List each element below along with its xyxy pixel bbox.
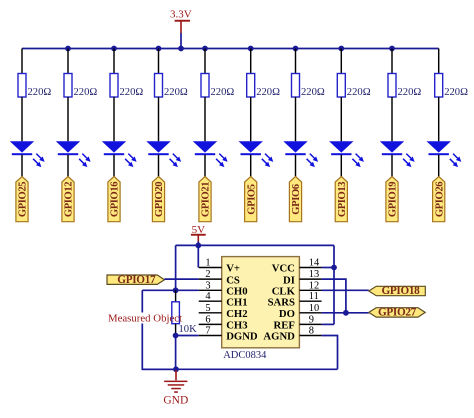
wire LED8 to port GPIO13 xyxy=(340,155,342,177)
junction 5V node xyxy=(195,243,201,249)
svg-text:VCC: VCC xyxy=(272,263,295,275)
power 5V xyxy=(191,224,206,242)
junction CH0 node xyxy=(173,287,179,293)
wire 5V to pin1 xyxy=(197,245,199,267)
pin 1 V+ stub xyxy=(199,267,222,269)
wire ground rail xyxy=(142,368,337,370)
svg-text:ADC0834: ADC0834 xyxy=(223,350,267,361)
port GPIO13 xyxy=(335,177,348,222)
wire rail to R7 xyxy=(295,49,297,74)
LED D8 xyxy=(329,141,364,167)
junction rail branch 5 xyxy=(202,46,208,52)
svg-text:9: 9 xyxy=(309,314,314,325)
wire 5V horizontal bus xyxy=(176,244,334,246)
pin 7 DGND stub xyxy=(199,335,222,337)
resistor R4 220Ω xyxy=(155,74,163,98)
port GPIO6 xyxy=(289,177,302,222)
svg-text:AGND: AGND xyxy=(263,331,295,343)
svg-text:11: 11 xyxy=(309,291,319,302)
svg-text:GND: GND xyxy=(163,394,188,406)
svg-text:13: 13 xyxy=(309,269,319,280)
svg-text:CH1: CH1 xyxy=(226,296,247,308)
port GPIO25 xyxy=(16,177,29,222)
junction rail branch 8 xyxy=(338,46,344,52)
wire R5 to LED5 xyxy=(204,97,206,141)
svg-text:GPIO6: GPIO6 xyxy=(291,184,302,214)
wire R10 to LED10 xyxy=(438,97,440,141)
wire 3.3V power rail xyxy=(22,48,439,50)
wire 3.3V stub to rail xyxy=(180,33,182,49)
wire rail to R9 xyxy=(391,49,393,74)
port GPIO17 xyxy=(107,274,165,286)
svg-text:GPIO5: GPIO5 xyxy=(246,184,257,214)
svg-text:DI: DI xyxy=(283,274,295,286)
svg-text:GPIO21: GPIO21 xyxy=(201,182,212,217)
wire rail to R6 xyxy=(250,49,252,74)
svg-text:GPIO26: GPIO26 xyxy=(434,182,445,217)
wire LED10 to port GPIO26 xyxy=(438,155,440,177)
svg-text:220Ω: 220Ω xyxy=(301,87,325,98)
svg-text:GPIO18: GPIO18 xyxy=(382,285,421,297)
wire rail to R2 xyxy=(67,49,69,74)
wire LED3 to port GPIO16 xyxy=(113,155,115,177)
junction rail branch 3 xyxy=(111,46,117,52)
port GPIO20 xyxy=(152,177,165,222)
junction rail branch 4 xyxy=(156,46,162,52)
svg-text:2: 2 xyxy=(205,269,210,280)
wire rail to R8 xyxy=(340,49,342,74)
LED D3 xyxy=(102,141,137,167)
wire rail to R4 xyxy=(158,49,160,74)
svg-text:10: 10 xyxy=(309,303,319,314)
power 3.3V xyxy=(170,8,192,33)
junction rail branch 6 xyxy=(248,46,254,52)
port GPIO27 xyxy=(369,306,425,318)
resistor R10 220Ω xyxy=(435,74,443,98)
port GPIO12 xyxy=(62,177,75,222)
svg-text:220Ω: 220Ω xyxy=(211,87,235,98)
svg-text:GPIO16: GPIO16 xyxy=(110,182,121,217)
resistor R1 220Ω xyxy=(18,74,26,98)
wire pin8 AGND to ground xyxy=(322,336,338,370)
wire 10K bottom lead xyxy=(175,324,177,336)
svg-text:GPIO25: GPIO25 xyxy=(18,182,29,217)
svg-text:GPIO12: GPIO12 xyxy=(64,182,75,217)
wire R2 to LED2 xyxy=(67,97,69,141)
wire LED4 to port GPIO20 xyxy=(158,155,160,177)
label Measured Object xyxy=(106,313,182,325)
resistor 10K xyxy=(172,302,180,324)
svg-text:4: 4 xyxy=(205,291,211,302)
svg-text:CH2: CH2 xyxy=(226,308,247,320)
resistor R2 220Ω xyxy=(64,74,72,98)
port GPIO26 xyxy=(433,177,446,222)
svg-text:GPIO13: GPIO13 xyxy=(337,182,348,217)
wire R3 to LED3 xyxy=(113,97,115,141)
wire R9 to LED9 xyxy=(391,97,393,141)
svg-text:5: 5 xyxy=(205,303,210,314)
svg-text:220Ω: 220Ω xyxy=(164,87,188,98)
wire CH0 node to pin3 xyxy=(142,289,198,291)
svg-text:GPIO19: GPIO19 xyxy=(388,182,399,217)
svg-text:SARS: SARS xyxy=(268,296,295,308)
svg-text:220Ω: 220Ω xyxy=(28,87,52,98)
pin 4 CH1 stub xyxy=(199,300,222,302)
wire R1 to LED1 xyxy=(21,97,23,141)
svg-text:DO: DO xyxy=(279,308,295,320)
wire rail to R5 xyxy=(204,49,206,74)
LED D10 xyxy=(427,141,462,167)
wire rail to R3 xyxy=(113,49,115,74)
svg-text:GPIO17: GPIO17 xyxy=(117,274,156,286)
LED D5 xyxy=(193,141,228,167)
wire pin12 CLK to GPIO18 xyxy=(322,289,369,291)
wire pin13 DI jog xyxy=(322,279,346,313)
svg-text:220Ω: 220Ω xyxy=(347,87,371,98)
pin 2 CS stub xyxy=(199,278,222,280)
wire measured-object branch xyxy=(142,290,176,369)
pin 14 VCC stub xyxy=(299,267,321,269)
svg-text:3: 3 xyxy=(205,280,210,291)
junction VCC pin14 xyxy=(331,265,337,271)
svg-text:GPIO27: GPIO27 xyxy=(378,306,417,318)
LED D7 xyxy=(283,141,318,167)
svg-text:Measured Object: Measured Object xyxy=(108,313,182,325)
wire LED7 to port GPIO6 xyxy=(295,155,297,177)
pin 8 AGND stub xyxy=(299,335,321,337)
svg-text:V+: V+ xyxy=(226,263,240,275)
wire GPIO17 to pin2 CS xyxy=(165,278,199,280)
resistor R3 220Ω xyxy=(110,74,118,98)
resistor R8 220Ω xyxy=(337,74,345,98)
svg-text:220Ω: 220Ω xyxy=(256,87,280,98)
wire LED9 to port GPIO19 xyxy=(391,155,393,177)
resistor R6 220Ω xyxy=(247,74,255,98)
port GPIO19 xyxy=(386,177,399,222)
svg-text:1: 1 xyxy=(205,258,210,269)
wire R4 to LED4 xyxy=(158,97,160,141)
svg-text:10K: 10K xyxy=(179,324,198,335)
LED D4 xyxy=(146,141,181,167)
wire LED5 to port GPIO21 xyxy=(204,155,206,177)
wire VCC/REF vertical xyxy=(333,245,335,324)
LED D9 xyxy=(380,141,415,167)
svg-text:3.3V: 3.3V xyxy=(170,8,192,20)
wire LED6 to port GPIO5 xyxy=(250,155,252,177)
LED D2 xyxy=(56,141,91,167)
ground GND symbol xyxy=(163,370,188,406)
pin 3 CH0 stub xyxy=(199,289,222,291)
LED D6 xyxy=(239,141,274,167)
pin 12 CLK stub xyxy=(299,289,321,291)
svg-text:CS: CS xyxy=(226,274,240,286)
pin 9 REF stub xyxy=(299,323,321,325)
wire 5V bus down-left to CH0 node xyxy=(175,245,177,290)
wire R6 to LED6 xyxy=(250,97,252,141)
wire LED2 to port GPIO12 xyxy=(67,155,69,177)
resistor R9 220Ω xyxy=(388,74,396,98)
wire pin14 VCC xyxy=(322,267,334,269)
pin 10 DO stub xyxy=(299,312,321,314)
junction rail branch 7 xyxy=(293,46,299,52)
resistor R5 220Ω xyxy=(201,74,209,98)
wire DGND node to ground rail xyxy=(175,336,177,370)
pin 11 SARS stub xyxy=(299,300,321,302)
svg-text:220Ω: 220Ω xyxy=(444,87,468,98)
svg-text:6: 6 xyxy=(205,314,210,325)
junction DGND node xyxy=(173,333,179,339)
svg-text:GPIO20: GPIO20 xyxy=(154,182,165,217)
pin 5 CH2 stub xyxy=(199,312,222,314)
junction rail branch 9 xyxy=(389,46,395,52)
wire R7 to LED7 xyxy=(295,97,297,141)
pin 6 CH3 stub xyxy=(199,323,222,325)
IC U1 ADC0834 body xyxy=(222,257,300,348)
junction DI/DO node xyxy=(343,310,349,316)
svg-text:220Ω: 220Ω xyxy=(74,87,98,98)
wire pin10 DO to GPIO27 xyxy=(322,312,369,314)
wire 10K top lead xyxy=(175,290,177,302)
svg-text:220Ω: 220Ω xyxy=(120,87,144,98)
svg-text:220Ω: 220Ω xyxy=(398,87,422,98)
junction ground rail xyxy=(173,366,179,372)
svg-text:7: 7 xyxy=(205,326,210,337)
wire LED1 to port GPIO25 xyxy=(21,155,23,177)
wire DGND node to pin7 xyxy=(176,335,199,337)
svg-text:12: 12 xyxy=(309,280,319,291)
port GPIO16 xyxy=(108,177,121,222)
resistor R7 220Ω xyxy=(292,74,300,98)
wire 5V stub xyxy=(197,242,199,246)
junction rail branch 2 xyxy=(65,46,71,52)
port GPIO21 xyxy=(199,177,212,222)
wire pin9 REF xyxy=(322,323,334,325)
pin 13 DI stub xyxy=(299,278,321,280)
svg-text:DGND: DGND xyxy=(226,331,258,343)
wire rail to R10 xyxy=(438,49,440,74)
svg-text:14: 14 xyxy=(309,258,320,269)
svg-text:8: 8 xyxy=(309,326,314,337)
port GPIO18 xyxy=(369,285,426,297)
junction on rail at 3.3V xyxy=(178,46,184,52)
port GPIO5 xyxy=(245,177,258,222)
wire rail to R1 xyxy=(21,49,23,74)
wire R8 to LED8 xyxy=(340,97,342,141)
LED D1 xyxy=(10,141,45,167)
